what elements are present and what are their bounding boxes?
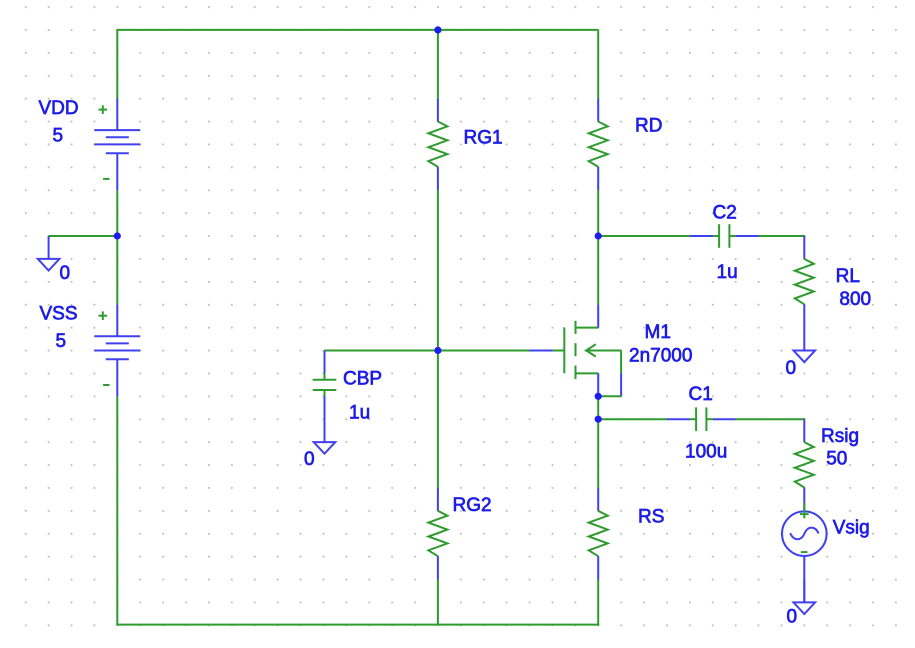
svg-text:RG2: RG2 — [453, 495, 492, 516]
svg-text:1u: 1u — [349, 403, 370, 424]
svg-text:800: 800 — [839, 289, 871, 310]
svg-text:1u: 1u — [717, 262, 738, 283]
svg-text:RD: RD — [635, 116, 662, 137]
svg-text:Rsig: Rsig — [821, 426, 859, 447]
svg-text:0: 0 — [304, 449, 315, 470]
svg-text:0: 0 — [786, 358, 797, 379]
svg-text:0: 0 — [60, 263, 71, 284]
svg-text:RL: RL — [836, 266, 860, 287]
svg-text:VDD: VDD — [39, 98, 79, 119]
svg-text:RG1: RG1 — [464, 128, 503, 149]
svg-text:RS: RS — [638, 507, 664, 528]
svg-text:CBP: CBP — [343, 369, 382, 390]
svg-text:VSS: VSS — [40, 304, 78, 325]
svg-text:C1: C1 — [689, 384, 713, 405]
svg-text:50: 50 — [826, 449, 847, 470]
svg-text:2n7000: 2n7000 — [629, 346, 692, 367]
svg-text:0: 0 — [787, 607, 798, 628]
svg-text:M1: M1 — [645, 322, 671, 343]
svg-text:100u: 100u — [685, 442, 727, 463]
svg-text:5: 5 — [56, 331, 67, 352]
svg-text:5: 5 — [53, 126, 64, 147]
svg-text:C2: C2 — [713, 203, 737, 224]
svg-text:Vsig: Vsig — [833, 518, 870, 539]
